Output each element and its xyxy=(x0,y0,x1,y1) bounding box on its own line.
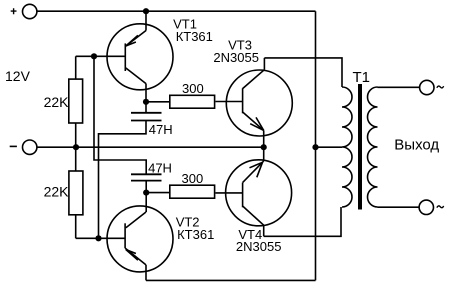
transistor Q4 VT4 2N3055 xyxy=(226,147,292,236)
transformer T1 core xyxy=(358,84,362,210)
svg-text:47Н: 47Н xyxy=(148,161,172,176)
svg-text:Выход: Выход xyxy=(394,136,439,153)
capacitor C1 47n xyxy=(131,102,162,121)
node junction VT1 collector xyxy=(143,99,149,105)
wire right +12V drop xyxy=(315,11,317,280)
transistor Q1 VT1 KT361 xyxy=(107,11,173,102)
svg-text:300: 300 xyxy=(182,171,204,186)
wire top +12V rail xyxy=(37,10,316,12)
svg-text:T1: T1 xyxy=(353,69,371,86)
wire cross-coupling C1 to VT2 base xyxy=(99,121,147,239)
label ac tilde bottom xyxy=(437,206,444,208)
output terminal top xyxy=(420,80,434,94)
svg-text:22K: 22K xyxy=(44,184,70,200)
node junction top rail VT1 emitter xyxy=(143,8,149,14)
transistor Q2 VT2 KT361 xyxy=(107,193,173,281)
transformer T1 primary winding xyxy=(342,87,352,207)
wire center-tap to vertical rail xyxy=(316,146,343,148)
resistor R4 300 xyxy=(146,185,242,198)
wire minus rail xyxy=(37,146,264,148)
svg-text:22K: 22K xyxy=(44,94,70,110)
svg-text:12V: 12V xyxy=(5,68,31,84)
wire cross-coupling VT1 base to C2 xyxy=(94,56,146,174)
svg-text:2N3055: 2N3055 xyxy=(236,239,282,254)
node junction VT2 collector xyxy=(143,190,149,196)
resistor R3 300 xyxy=(146,95,243,108)
wire VT1 base feed xyxy=(76,55,126,57)
wire secondary bottom lead xyxy=(378,206,420,208)
node junction minus rail divider xyxy=(73,144,79,150)
capacitor C2 47n xyxy=(131,174,162,192)
transformer T1 secondary winding xyxy=(368,87,378,207)
svg-text:47Н: 47Н xyxy=(149,122,173,137)
svg-text:КТ361: КТ361 xyxy=(177,227,214,242)
node junction emitters xyxy=(261,144,267,150)
plus terminal xyxy=(11,4,37,18)
node junction VT1 base xyxy=(91,53,97,59)
wire secondary top lead xyxy=(378,86,420,88)
wire VT4 collector to primary bottom xyxy=(264,207,341,236)
svg-text:300: 300 xyxy=(182,81,204,96)
wire bottom +12V return xyxy=(146,279,316,281)
transistor Q3 VT3 2N3055 xyxy=(226,58,292,147)
wire VT2 base feed xyxy=(76,237,125,239)
label ac tilde top xyxy=(437,86,444,88)
output terminal bottom xyxy=(419,200,433,214)
svg-text:2N3055: 2N3055 xyxy=(213,50,259,65)
node junction VT2 base xyxy=(95,235,101,241)
minus terminal xyxy=(10,140,37,154)
wire VT3 collector to primary top xyxy=(264,58,342,87)
resistor R1 22K xyxy=(69,56,83,171)
resistor R2 22K xyxy=(69,171,83,238)
svg-text:КТ361: КТ361 xyxy=(176,29,213,44)
node junction center tap rail xyxy=(312,144,318,150)
